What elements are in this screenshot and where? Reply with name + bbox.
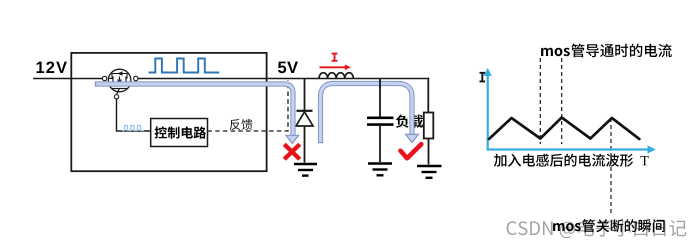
label 12V: [37, 62, 67, 74]
load branch wire: [427, 78, 429, 113]
red check (load current ok): [401, 144, 422, 158]
output capacitor C branch: [379, 79, 381, 118]
axis caption: 加入电感后的电流波形 T: [494, 154, 633, 167]
outer box (converter enclosure): [71, 53, 266, 171]
label 反馈: [230, 119, 253, 130]
graph X axis (T): [487, 148, 649, 150]
label T (x axis): [641, 156, 649, 165]
graph dashed leader lines: [539, 58, 541, 144]
graph title: mos管导通时的电流: [541, 44, 672, 58]
PWM square wave inside box: [149, 59, 220, 73]
gate wire from MOSFET to control circuit: [117, 99, 151, 131]
blue arrowhead (toward diode): [286, 135, 299, 143]
blue band end cap (inductor loop): [318, 142, 323, 144]
ground (diode): [294, 163, 317, 165]
CSDN watermark: [507, 219, 687, 238]
blue band start cap: [95, 81, 97, 86]
wire (capacitor branch over band): [379, 80, 381, 89]
label 负载: [396, 115, 423, 128]
ground (load): [417, 165, 442, 167]
blue arrowhead (toward load): [406, 134, 419, 142]
small gate drive square wave: [122, 126, 144, 131]
blue current flow band (MOS on path): [95, 84, 293, 136]
wire: MOSFET to load branch (top rail): [138, 78, 429, 80]
label I (inductor current): [332, 54, 338, 61]
inductor current waveform: [489, 118, 639, 140]
inductor L: [319, 73, 353, 79]
MOSFET terminals: [102, 76, 106, 80]
graph Y axis (I): [487, 74, 489, 150]
capacitor C plates: [367, 117, 394, 120]
wire: 12V input to MOSFET: [33, 78, 102, 80]
label I (y axis): [480, 73, 486, 82]
red current arrow I over inductor: [320, 66, 346, 68]
load resistor body: [424, 113, 434, 139]
red X (no diode current): [284, 144, 299, 159]
label 5V: [278, 62, 298, 74]
control circuit box 控制电路: [151, 119, 208, 147]
freewheel diode D1 branch wire: [304, 79, 306, 163]
blue current flow band (inductor loop): [321, 84, 413, 144]
feedback dashed line: [208, 80, 289, 131]
ground (capacitor): [368, 162, 392, 164]
bottom label: mos管关断的瞬间: [553, 219, 665, 232]
MOSFET Q1 (in circle): [108, 69, 131, 92]
diode D1: [296, 112, 313, 126]
